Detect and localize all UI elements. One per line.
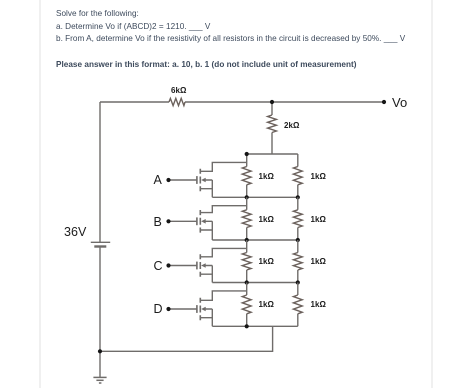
label node B	[154, 215, 162, 229]
junction dot rail below C right	[296, 280, 300, 284]
resistor RD2 1k (right)	[297, 283, 299, 327]
resistor RA2 1k (right)	[297, 154, 299, 197]
wire: top rail from battery + to Vo	[100, 101, 384, 103]
node: top junction	[270, 100, 274, 104]
label RB1 value	[259, 215, 274, 224]
transistor QB (NMOS)	[169, 206, 247, 240]
wire: bottom return wire	[100, 326, 273, 351]
wire: rail below row A	[212, 196, 297, 198]
circuit text labels	[171, 86, 186, 95]
junction dot rail A top left	[245, 152, 249, 156]
resistor R 6k (horizontal)	[169, 98, 185, 105]
ground	[93, 351, 106, 383]
label node C	[154, 259, 163, 273]
battery V1 36V	[91, 242, 110, 246]
node A terminal dot	[166, 178, 170, 182]
resistor RC1 1k (left)	[246, 240, 248, 283]
resistor R 2k (vertical)	[268, 102, 277, 154]
transistor QD (NMOS)	[169, 291, 247, 326]
resistor RB2 1k (right)	[297, 197, 299, 240]
node B terminal dot	[166, 219, 170, 223]
label RB2 value	[311, 215, 326, 224]
label RA1 value	[259, 172, 274, 181]
node C terminal dot	[166, 263, 170, 267]
junction dot: bottom return node	[98, 349, 102, 353]
label RC2 value	[311, 257, 326, 266]
node D terminal dot	[166, 307, 170, 311]
row C	[169, 240, 303, 283]
transistor QC (NMOS)	[169, 248, 247, 282]
label node D	[154, 302, 163, 316]
junction dot rail below D left	[245, 324, 249, 328]
junction dot rail below A right	[296, 195, 300, 199]
row B	[169, 197, 303, 240]
wire: rail below row B	[212, 239, 297, 241]
wire: left vertical from battery - to bottom node	[99, 247, 101, 352]
resistor RC2 1k (right)	[297, 240, 299, 283]
row A	[169, 154, 303, 197]
resistor RA1 1k (left)	[246, 154, 248, 197]
wire: rail below row D	[212, 325, 297, 327]
junction dot rail below B right	[296, 238, 300, 242]
junction dot rail below A left	[245, 195, 249, 199]
junction dot rail below C left	[245, 280, 249, 284]
transistor QA (NMOS)	[169, 162, 247, 197]
wire: rail below row C	[212, 282, 297, 284]
resistor RB1 1k (left)	[246, 197, 248, 240]
label RD2 value	[311, 300, 326, 309]
label node A	[154, 173, 162, 187]
label RD1 value	[259, 300, 274, 309]
node Vo terminal	[382, 100, 386, 104]
row D	[169, 283, 303, 327]
wire: rail above row A	[247, 153, 298, 155]
label RA2 value	[311, 172, 326, 181]
junction dot rail below B left	[245, 238, 249, 242]
resistor RD1 1k (left)	[246, 283, 248, 327]
wire: left vertical from top rail to battery	[99, 102, 101, 242]
left content border	[39, 0, 41, 388]
right content border	[431, 0, 433, 388]
label RC1 value	[259, 257, 274, 266]
